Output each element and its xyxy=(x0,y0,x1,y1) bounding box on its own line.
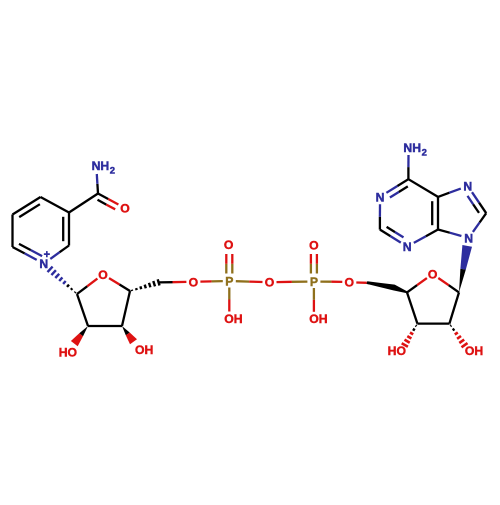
bond P2-OH xyxy=(313,288,315,300)
svg-text:P: P xyxy=(310,275,318,289)
bond C3-C(amide) xyxy=(69,194,98,213)
bond P2-O ester2 xyxy=(320,280,331,282)
svg-text:N: N xyxy=(376,190,385,204)
bond O ester2-C5'' xyxy=(356,281,367,284)
double bond N7=C8 adenine xyxy=(472,192,479,203)
svg-text:O: O xyxy=(224,238,233,252)
svg-text:O: O xyxy=(345,276,354,290)
bond C2'-C3' ribose1 xyxy=(88,325,122,327)
bond C3''-C2'' ribose2 xyxy=(417,322,449,324)
bond O4''-C4'' ribose2 xyxy=(417,278,427,285)
bond C6-C5 pyridinium xyxy=(11,215,13,248)
double bond C4=C5 adenine xyxy=(437,197,439,230)
svg-text:+: + xyxy=(44,249,50,261)
svg-text:OH: OH xyxy=(309,312,327,326)
double bond C5=C4 pyridinium xyxy=(13,197,41,215)
svg-text:NH: NH xyxy=(403,141,421,155)
svg-text:2: 2 xyxy=(422,148,427,159)
bond C4-C3 pyridinium xyxy=(41,197,70,213)
svg-text:O: O xyxy=(98,268,107,282)
svg-text:N: N xyxy=(464,232,473,246)
bond O bridge-P2 xyxy=(277,281,292,284)
bond C4''-C3'' ribose2 xyxy=(407,292,417,323)
hashed wedge C2''-OH ribose2 xyxy=(450,324,451,327)
svg-text:HO: HO xyxy=(388,344,406,358)
wedge C3'-OH ribose1 xyxy=(122,326,130,335)
svg-text:HO: HO xyxy=(59,346,77,360)
bond N1-C2 adenine xyxy=(379,204,381,217)
svg-text:O: O xyxy=(309,239,318,253)
bond N9-C4 adenine xyxy=(450,233,462,236)
bond C5-N7 adenine xyxy=(438,193,449,197)
bond C1'-C2' ribose1 xyxy=(77,294,88,326)
hashed wedge C4'-C5' ribose1 xyxy=(130,290,133,291)
bond C2''-C1'' ribose2 xyxy=(449,292,459,323)
svg-text:O: O xyxy=(265,276,274,290)
bond N3-C4 adenine xyxy=(414,236,426,243)
bond P1-O bridge xyxy=(236,280,249,283)
double bond P2=O xyxy=(310,264,312,274)
bond C5'-O ester1 xyxy=(159,281,173,283)
double bond C2=N3 adenine xyxy=(380,230,391,237)
bond P1-OH xyxy=(228,288,230,300)
bond C8-N9 adenine xyxy=(480,213,487,222)
bond C3'-C4' ribose1 xyxy=(122,291,130,326)
svg-text:O: O xyxy=(189,275,198,289)
bond O4'-C4' ribose1 xyxy=(109,278,120,284)
double bond N1=C6 pyridinium xyxy=(25,253,37,260)
bond C5-C6 adenine xyxy=(408,179,438,197)
svg-text:OH: OH xyxy=(465,344,483,358)
svg-text:N: N xyxy=(403,240,412,254)
double bond C6=N1 adenine xyxy=(397,179,408,186)
bond O-P1 xyxy=(200,280,211,283)
double bond P1=O xyxy=(225,264,227,274)
wedge C2'-OH ribose1 xyxy=(79,326,88,336)
svg-text:N: N xyxy=(463,180,472,194)
bond O4'-C1' ribose1 xyxy=(87,279,97,287)
svg-text:OH: OH xyxy=(135,343,153,357)
bond C-N amide xyxy=(96,184,99,194)
svg-text:O: O xyxy=(120,202,129,216)
wedge C1''-N9 adenine xyxy=(459,269,466,293)
bond C2-N1 pyridinium xyxy=(60,246,69,253)
hashed wedge N1-C1' ribose1 xyxy=(74,291,77,294)
double bond C=O amide xyxy=(98,194,108,200)
svg-text:2: 2 xyxy=(110,165,115,176)
svg-text:P: P xyxy=(225,275,233,289)
bond O4''-C1'' ribose2 xyxy=(438,278,448,285)
svg-text:NH: NH xyxy=(92,159,110,173)
wedge C4''-C5'' ribose2 xyxy=(367,281,408,293)
svg-text:OH: OH xyxy=(224,312,242,326)
bond C6-N amine adenine xyxy=(407,167,409,179)
hashed wedge C3''-OH ribose2 xyxy=(416,324,417,327)
svg-text:O: O xyxy=(428,268,437,282)
double bond C3=C2 pyridinium xyxy=(68,213,70,246)
